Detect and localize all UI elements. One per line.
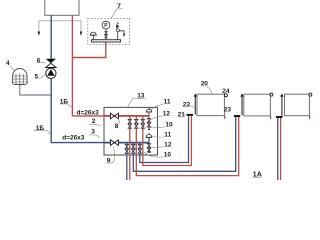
supply outlet valves (three, on red drops): [128, 119, 144, 128]
radiator 2 drain: [270, 116, 272, 119]
svg-text:10: 10: [164, 151, 172, 158]
label 23: [224, 106, 232, 114]
label 2: [89, 118, 101, 126]
radiator 2: [244, 94, 271, 116]
svg-text:6: 6: [37, 57, 41, 64]
gauge cock: [105, 29, 108, 40]
svg-text:12: 12: [163, 110, 171, 117]
pipe pair to radiator 1 (blue drop B3 + red drop R3): [140, 116, 189, 163]
label 4: [6, 60, 14, 70]
label 6: [37, 57, 46, 64]
pipe: blue return lower (pump to manifold): [51, 78, 104, 142]
safety valve: [116, 22, 125, 39]
radiator 1 air vent 24: [224, 94, 227, 97]
svg-text:d=26x3: d=26x3: [62, 134, 85, 141]
automatic air vent (safety group): [90, 32, 97, 40]
label 20: [201, 81, 212, 94]
radiator 2 connection unit: [234, 115, 240, 117]
svg-text:4: 4: [6, 60, 10, 67]
boiler: [45, 0, 79, 15]
label 12 upper: [151, 110, 171, 120]
label 12 lower: [151, 141, 172, 148]
check valve 6: [46, 59, 56, 68]
svg-text:8: 8: [115, 123, 119, 130]
label 13: [128, 93, 146, 108]
svg-text:11: 11: [164, 132, 171, 139]
label 10 upper: [145, 121, 174, 128]
radiator 3 air vent: [309, 93, 312, 96]
label 1B lower: [34, 125, 51, 135]
label 5: [35, 74, 46, 81]
pipe: red branch to safety group: [72, 42, 105, 58]
valve 8: [110, 113, 118, 119]
supply manifold drain valve: [147, 116, 150, 130]
expansion tank 4: [12, 69, 27, 85]
return manifold drain valve: [147, 143, 150, 153]
radiator 1 drain 23: [224, 116, 226, 120]
label 10 lower: [143, 151, 171, 158]
supply manifold air vent: [146, 107, 152, 116]
pipe: red supply horizontal to manifold: [72, 115, 104, 117]
return manifold air vent: [146, 133, 152, 143]
svg-text:12: 12: [164, 141, 172, 148]
label 21: [178, 112, 186, 119]
svg-text:d=26x3: d=26x3: [77, 109, 100, 116]
svg-text:5: 5: [35, 74, 39, 81]
flow-direction annotation bracket: [38, 21, 83, 36]
svg-text:1Б: 1Б: [60, 98, 69, 105]
svg-text:24: 24: [222, 88, 230, 95]
return outlet valves (three, on blue drops): [125, 144, 141, 153]
pressure gauge: [102, 21, 110, 29]
valve 9: [110, 140, 118, 146]
radiator 2 riser pipe: [241, 96, 243, 115]
label 11 lower: [152, 132, 171, 139]
manifold box 13: [104, 107, 158, 155]
svg-text:3: 3: [91, 129, 95, 136]
label 24: [222, 88, 230, 95]
label 1A: [253, 171, 262, 178]
pipe pair to radiator 2 (blue drop B2 + red drop R2): [133, 116, 235, 171]
radiator 3 drain: [309, 116, 311, 119]
radiator 3: [285, 94, 310, 116]
tank connecting pipe: [20, 85, 51, 95]
label 22: [183, 102, 195, 109]
svg-text:11: 11: [164, 99, 171, 106]
label 3: [89, 129, 101, 138]
radiator 1 riser pipe 22: [194, 96, 196, 114]
label 1B upper: [60, 98, 72, 107]
radiator 2 thermostatic valve: [240, 94, 243, 97]
label 9: [106, 147, 114, 165]
label 11 upper: [151, 99, 171, 111]
safety group manifold bar: [92, 40, 121, 42]
safety group 7 dashed box: [88, 18, 130, 44]
radiator 3 connection unit: [276, 116, 283, 118]
radiator 2 air vent: [270, 93, 273, 96]
radiator 3 thermostatic valve: [280, 94, 283, 97]
label 7: [111, 3, 122, 18]
radiator 1: [197, 94, 224, 115]
svg-text:23: 23: [224, 106, 232, 113]
label 8: [115, 120, 120, 131]
pump 5: [46, 68, 56, 78]
pipe pair to radiator 3 (blue drop B1 + red drop R1): [127, 116, 278, 181]
radiator 1 connection unit 21: [187, 114, 193, 116]
pipe: boiler supply (red) vertical: [71, 15, 73, 116]
pipe: boiler return (blue) upper: [50, 15, 52, 59]
return manifold row (blue): [104, 142, 149, 144]
radiator 3 riser pipe: [281, 96, 283, 116]
svg-text:10: 10: [165, 121, 173, 128]
radiator 1 thermostatic valve: [194, 94, 197, 97]
supply manifold row (red): [104, 115, 149, 117]
